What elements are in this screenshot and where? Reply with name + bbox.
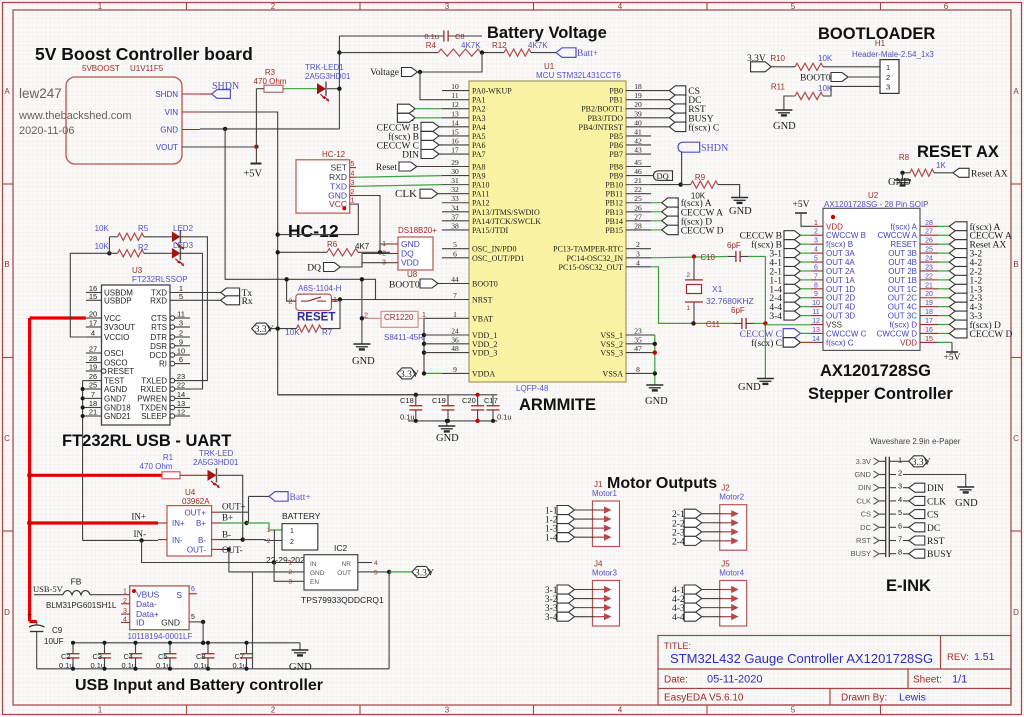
net flag f(scx) D (PB14) xyxy=(651,220,662,222)
junction CR1220 net xyxy=(360,277,364,281)
ground symbol (e-paper) xyxy=(957,486,974,488)
svg-text:USBDP: USBDP xyxy=(104,296,132,305)
net flag DC (PB1) xyxy=(651,99,669,101)
svg-text:27: 27 xyxy=(89,345,97,354)
svg-text:GND: GND xyxy=(854,470,871,479)
svg-text:2: 2 xyxy=(898,469,902,478)
svg-text:19: 19 xyxy=(925,300,933,307)
svg-text:GND: GND xyxy=(352,356,375,367)
J1 pin arrow 2 xyxy=(594,518,607,520)
svg-text:TRK-LED1: TRK-LED1 xyxy=(305,63,344,72)
svg-text:RXLED: RXLED xyxy=(140,385,167,394)
svg-text:C3: C3 xyxy=(93,652,103,661)
svg-text:24: 24 xyxy=(451,327,459,336)
wire RXD to Rx flag xyxy=(190,299,221,301)
svg-text:22: 22 xyxy=(925,273,933,280)
svg-text:RI: RI xyxy=(159,360,167,369)
ground symbol (MCU VSS) xyxy=(646,384,663,386)
svg-text:+5V: +5V xyxy=(944,353,961,363)
svg-text:OUT 2D: OUT 2D xyxy=(826,294,855,303)
svg-text:9: 9 xyxy=(814,291,818,298)
svg-text:TRK-LED: TRK-LED xyxy=(199,449,233,458)
ground symbol (crystal) xyxy=(757,378,774,380)
power flag +5V (U2 pin15) xyxy=(938,341,952,343)
wire LED2 to TXLED xyxy=(180,237,207,381)
svg-text:RESET: RESET xyxy=(890,240,917,249)
svg-text:VSS_1: VSS_1 xyxy=(600,331,623,340)
wire IN+ red xyxy=(30,521,158,524)
svg-text:21: 21 xyxy=(634,176,642,185)
svg-text:PA13/JTMS/SWDIO: PA13/JTMS/SWDIO xyxy=(472,208,540,217)
svg-text:19: 19 xyxy=(89,363,97,372)
svg-text:15: 15 xyxy=(925,336,933,343)
svg-text:VCC: VCC xyxy=(104,314,121,323)
svg-text:PB4/JNTRST: PB4/JNTRST xyxy=(579,123,624,132)
svg-text:OUT-: OUT- xyxy=(187,546,206,555)
net port DQ (PB9) xyxy=(651,175,653,177)
svg-text:DS18B20+: DS18B20+ xyxy=(398,226,437,235)
svg-text:4: 4 xyxy=(374,560,378,567)
wire VDD rows xyxy=(424,334,442,336)
junction R6 column xyxy=(276,250,280,254)
net flag RST (PB2) xyxy=(651,108,669,110)
svg-text:E-INK: E-INK xyxy=(886,577,931,595)
svg-text:C7: C7 xyxy=(235,652,245,661)
svg-text:PB1: PB1 xyxy=(609,96,623,105)
net flag SHDN (PB10 pullup net) xyxy=(678,142,700,152)
wire switch pin1 to NRST row xyxy=(331,299,442,301)
svg-text:03962A: 03962A xyxy=(182,497,210,506)
svg-text:1: 1 xyxy=(686,305,690,312)
svg-text:6: 6 xyxy=(453,249,457,258)
svg-text:GND: GND xyxy=(401,239,420,249)
svg-text:20: 20 xyxy=(89,310,97,319)
svg-text:OUT-: OUT- xyxy=(222,545,243,555)
svg-text:A6S-1104-H: A6S-1104-H xyxy=(298,284,342,293)
svg-text:C: C xyxy=(4,434,10,443)
svg-text:28: 28 xyxy=(925,220,933,227)
svg-text:10K: 10K xyxy=(95,242,110,251)
svg-text:26: 26 xyxy=(634,203,642,212)
net flag BUSY (PB3) xyxy=(651,117,669,119)
svg-text:28: 28 xyxy=(634,221,642,230)
wire DS18B20 GND stub xyxy=(380,244,390,252)
svg-text:PA12: PA12 xyxy=(472,199,490,208)
svg-text:R5: R5 xyxy=(138,224,149,233)
svg-text:10K: 10K xyxy=(818,54,833,63)
svg-text:PB13: PB13 xyxy=(605,208,623,217)
wire R11 to H1 pin3 xyxy=(823,86,880,96)
U2 right pins xyxy=(920,225,938,227)
HC-12 VCC pin dot xyxy=(342,206,346,210)
svg-text:OUT 4A: OUT 4A xyxy=(826,258,855,267)
svg-text:32.7680KHZ: 32.7680KHZ xyxy=(706,296,754,306)
svg-text:OUT 1A: OUT 1A xyxy=(826,276,855,285)
svg-text:2: 2 xyxy=(271,706,276,715)
svg-text:Lewis: Lewis xyxy=(899,692,926,704)
svg-text:VSS_3: VSS_3 xyxy=(600,349,623,358)
svg-text:10K: 10K xyxy=(95,224,110,233)
MCU U1 right pins xyxy=(626,90,651,92)
J1 pin arrow 1 xyxy=(594,509,607,511)
svg-text:IN: IN xyxy=(310,561,317,568)
svg-text:U8: U8 xyxy=(407,270,418,279)
svg-text:4: 4 xyxy=(814,247,818,254)
svg-text:TITLE:: TITLE: xyxy=(664,641,691,651)
wire IN- down to IC2 IN xyxy=(142,540,275,562)
wire OUT- down xyxy=(220,549,253,572)
svg-text:12: 12 xyxy=(812,318,820,325)
svg-text:OUT 2B: OUT 2B xyxy=(888,267,917,276)
svg-text:14: 14 xyxy=(451,118,459,127)
svg-text:AGND: AGND xyxy=(104,385,127,394)
svg-text:OSCI: OSCI xyxy=(104,349,124,358)
net flag Rx (FT232) xyxy=(221,296,240,305)
net flag RST (e-paper) xyxy=(903,540,909,542)
svg-text:FB: FB xyxy=(71,577,82,587)
J2 pin arrow 2 xyxy=(721,522,734,524)
svg-text:OUT 3A: OUT 3A xyxy=(826,249,855,258)
junction R6/DS18B20 xyxy=(378,250,382,254)
svg-text:DIN: DIN xyxy=(927,484,944,494)
svg-text:Reset AX: Reset AX xyxy=(971,169,1008,179)
svg-text:1: 1 xyxy=(333,297,337,304)
svg-text:OUT 2C: OUT 2C xyxy=(888,294,917,303)
net flag CLK (e-paper) xyxy=(903,500,909,502)
wire MCU VSS rows to ground (green) xyxy=(651,334,655,336)
svg-text:lew247: lew247 xyxy=(19,86,62,101)
svg-text:46: 46 xyxy=(634,167,642,176)
junction VSSA xyxy=(653,371,657,375)
svg-text:5: 5 xyxy=(814,256,818,263)
net flag 3.3V (e-paper) xyxy=(896,460,909,462)
wire R11 to GND xyxy=(784,96,795,110)
net flag CS (PB0) xyxy=(651,90,669,92)
svg-text:1-4: 1-4 xyxy=(545,534,558,544)
svg-text:VOUT: VOUT xyxy=(156,143,178,152)
J4 pin arrow 3 xyxy=(594,607,607,609)
svg-text:OUT 1C: OUT 1C xyxy=(888,285,917,294)
wire divider tap to Voltage flag xyxy=(420,53,482,72)
svg-text:45: 45 xyxy=(634,158,642,167)
svg-text:6: 6 xyxy=(944,2,949,11)
svg-text:CS: CS xyxy=(927,511,939,521)
power flag +5V (U2 pin1) xyxy=(801,213,811,226)
svg-text:OUT 3C: OUT 3C xyxy=(888,312,917,321)
svg-text:1: 1 xyxy=(98,2,103,11)
svg-text:2A5G3HD01: 2A5G3HD01 xyxy=(193,458,239,467)
svg-text:VBAT: VBAT xyxy=(472,314,493,323)
svg-text:4: 4 xyxy=(91,329,95,338)
svg-text:R2: R2 xyxy=(138,243,149,252)
svg-text:RST: RST xyxy=(856,536,871,545)
svg-text:VSSA: VSSA xyxy=(603,369,624,378)
svg-text:B+: B+ xyxy=(222,513,233,523)
svg-text:21: 21 xyxy=(925,282,933,289)
svg-text:R10: R10 xyxy=(770,54,785,63)
svg-text:Stepper Controller: Stepper Controller xyxy=(808,385,953,403)
svg-text:PB3/JTDO: PB3/JTDO xyxy=(587,114,623,123)
svg-text:4: 4 xyxy=(351,171,355,178)
svg-text:2: 2 xyxy=(351,189,355,196)
svg-text:B: B xyxy=(4,260,9,269)
svg-text:OUT 4D: OUT 4D xyxy=(826,303,855,312)
svg-text:17: 17 xyxy=(89,319,97,328)
svg-text:3: 3 xyxy=(636,249,640,258)
svg-text:26: 26 xyxy=(925,238,933,245)
svg-text:H1: H1 xyxy=(875,39,886,48)
svg-text:11: 11 xyxy=(177,310,185,319)
svg-text:3: 3 xyxy=(445,2,450,11)
J5 pin arrow 1 xyxy=(721,589,734,591)
junction PB10/SHDN/R9 xyxy=(679,182,683,186)
svg-text:GND: GND xyxy=(645,396,668,407)
svg-text:VCCIO: VCCIO xyxy=(104,333,129,342)
svg-text:25: 25 xyxy=(89,381,97,390)
svg-text:LED2: LED2 xyxy=(173,224,194,233)
svg-text:SHDN: SHDN xyxy=(155,90,178,99)
svg-text:42: 42 xyxy=(634,136,642,145)
svg-text:C18: C18 xyxy=(400,396,414,405)
svg-text:PB14: PB14 xyxy=(605,217,623,226)
svg-text:PA1: PA1 xyxy=(472,96,486,105)
svg-text:NR: NR xyxy=(342,561,352,568)
svg-text:PB0: PB0 xyxy=(609,87,623,96)
wire C10/C11 common column (green) xyxy=(764,257,766,379)
svg-text:PB6: PB6 xyxy=(609,141,623,150)
svg-text:5: 5 xyxy=(791,706,796,715)
net flag CECCW A (PB13) xyxy=(651,211,662,213)
svg-text:PC14-OSC32_IN: PC14-OSC32_IN xyxy=(567,254,624,263)
junction red bus IN+ xyxy=(27,520,32,525)
svg-text:2: 2 xyxy=(636,240,640,249)
net flag BUSY (e-paper) xyxy=(903,553,909,555)
svg-text:FT232RL USB - UART: FT232RL USB - UART xyxy=(62,432,231,450)
svg-text:ARMMITE: ARMMITE xyxy=(519,396,596,414)
svg-text:4: 4 xyxy=(636,258,640,267)
svg-text:R7: R7 xyxy=(322,328,333,337)
wire VCCIO feed from 3V3 xyxy=(70,253,109,337)
J5 pin arrow 2 xyxy=(721,598,734,600)
svg-text:6pF: 6pF xyxy=(727,241,741,250)
svg-text:Voltage: Voltage xyxy=(370,68,399,78)
svg-text:FT232RLSSOP: FT232RLSSOP xyxy=(132,275,188,284)
svg-text:CECCW D: CECCW D xyxy=(681,226,724,236)
svg-text:PB11: PB11 xyxy=(606,190,624,199)
svg-text:BATTERY: BATTERY xyxy=(282,511,321,521)
svg-text:10118194-0001LF: 10118194-0001LF xyxy=(128,632,193,641)
svg-text:CWCCW A: CWCCW A xyxy=(877,231,917,240)
capacitor C5 0.1u xyxy=(169,643,171,654)
svg-text:VSS_2: VSS_2 xyxy=(600,340,623,349)
svg-text:3.3V: 3.3V xyxy=(856,457,871,466)
svg-text:PB5: PB5 xyxy=(609,132,623,141)
svg-text:1K: 1K xyxy=(936,161,946,170)
wire VCC red feed xyxy=(30,316,86,319)
svg-text:19: 19 xyxy=(634,91,642,100)
svg-text:1: 1 xyxy=(98,706,103,715)
svg-text:470 Ohm: 470 Ohm xyxy=(140,462,173,471)
svg-text:10K: 10K xyxy=(285,328,300,337)
net flag f(scx) C (PB4) xyxy=(651,126,669,128)
svg-text:5: 5 xyxy=(374,570,378,577)
svg-text:16: 16 xyxy=(451,136,459,145)
junction VCC supply column xyxy=(276,232,280,236)
ground symbol (cap rail) xyxy=(299,643,301,650)
svg-text:C8: C8 xyxy=(196,652,206,661)
svg-text:TPS79933QDDCRQ1: TPS79933QDDCRQ1 xyxy=(301,595,384,605)
svg-text:Motor2: Motor2 xyxy=(719,493,744,502)
svg-text:GND: GND xyxy=(888,177,911,188)
wire B+ to battery pin1 (green) xyxy=(220,522,247,524)
wire IN- from FT232 grounds xyxy=(83,539,158,541)
title block xyxy=(658,636,1011,706)
svg-text:f(scx) B: f(scx) B xyxy=(826,240,853,249)
capacitor C8 0.1u xyxy=(207,643,209,654)
J2 pin arrow 4 xyxy=(721,540,734,542)
svg-text:3.3V: 3.3V xyxy=(415,568,434,578)
svg-text:3.3V: 3.3V xyxy=(912,458,931,468)
net flag CECCW D (PB15) xyxy=(651,229,662,231)
svg-text:2: 2 xyxy=(271,2,276,11)
svg-text:23: 23 xyxy=(925,264,933,271)
svg-text:05-11-2020: 05-11-2020 xyxy=(707,674,762,686)
svg-text:3-4: 3-4 xyxy=(545,613,558,623)
svg-text:3: 3 xyxy=(814,238,818,245)
wire LED3 to RXLED xyxy=(180,253,202,389)
svg-text:RESET: RESET xyxy=(108,367,135,376)
svg-text:5VBOOST: 5VBOOST xyxy=(82,64,120,73)
svg-text:7: 7 xyxy=(91,390,95,399)
svg-text:PA3: PA3 xyxy=(472,114,486,123)
wire C10 right to VSS column (green) xyxy=(748,256,765,258)
wire GND row to LED column xyxy=(200,128,339,130)
junction Voltage tap xyxy=(418,70,422,74)
svg-text:EN: EN xyxy=(310,579,319,586)
svg-text:30: 30 xyxy=(451,167,459,176)
wire battery plus to IC2 xyxy=(273,530,275,563)
wire HC-12 TXD to PA10 (green) xyxy=(356,185,442,187)
svg-text:Drawn By:: Drawn By: xyxy=(841,693,887,704)
svg-text:1.51: 1.51 xyxy=(974,651,995,663)
wire LED to OUT- column xyxy=(218,475,243,540)
svg-text:Sheet:: Sheet: xyxy=(913,675,942,686)
svg-text:DQ: DQ xyxy=(307,264,321,274)
svg-text:1: 1 xyxy=(123,589,127,596)
svg-text:PA14/JTCK/SWCLK: PA14/JTCK/SWCLK xyxy=(472,217,541,226)
wire PC14 to C10 (green) xyxy=(651,257,728,258)
svg-text:CR1220: CR1220 xyxy=(384,313,414,322)
wire R9 to GND xyxy=(718,185,740,198)
svg-text:18: 18 xyxy=(925,309,933,316)
U4 pin stubs xyxy=(158,522,167,524)
svg-text:IN+: IN+ xyxy=(172,519,185,528)
svg-text:17: 17 xyxy=(925,318,933,325)
svg-text:LED3: LED3 xyxy=(173,241,194,250)
wire PC15 down to C11 (green) xyxy=(651,267,734,324)
svg-text:14: 14 xyxy=(812,336,820,343)
svg-text:f(scx) C: f(scx) C xyxy=(688,122,719,133)
svg-text:A: A xyxy=(4,87,10,96)
svg-text:U2: U2 xyxy=(868,191,879,200)
svg-text:VDD_1: VDD_1 xyxy=(472,331,497,340)
svg-text:39: 39 xyxy=(634,109,642,118)
svg-text:R4: R4 xyxy=(426,41,437,50)
wire battery voltage node column xyxy=(338,36,340,129)
svg-text:1/1: 1/1 xyxy=(952,674,967,686)
svg-text:D: D xyxy=(4,608,10,617)
junction VSS net xyxy=(763,321,767,325)
svg-text:10: 10 xyxy=(451,82,459,91)
svg-text:6: 6 xyxy=(191,586,195,593)
svg-text:PA7: PA7 xyxy=(472,150,486,159)
svg-text:6: 6 xyxy=(898,521,902,530)
svg-text:PA10: PA10 xyxy=(472,181,490,190)
svg-text:EasyEDA V5.6.10: EasyEDA V5.6.10 xyxy=(664,693,744,704)
svg-text:DIN: DIN xyxy=(402,151,419,161)
wire switch pin2 to BOOT0 net xyxy=(287,279,296,301)
svg-text:R12: R12 xyxy=(492,41,507,50)
svg-text:www.thebackshed.com: www.thebackshed.com xyxy=(18,110,132,122)
capacitor C3 0.1u xyxy=(104,643,106,654)
svg-text:REV:: REV: xyxy=(947,652,969,663)
svg-text:6: 6 xyxy=(179,355,183,364)
junction crystal bottom xyxy=(691,321,695,325)
svg-text:f(scx) A: f(scx) A xyxy=(890,222,917,231)
junction red bus R1 xyxy=(27,473,32,478)
svg-text:1: 1 xyxy=(453,310,457,319)
svg-text:4K7: 4K7 xyxy=(355,242,370,251)
svg-text:AX1201728SG: AX1201728SG xyxy=(820,362,931,380)
svg-text:2-4: 2-4 xyxy=(672,537,685,547)
svg-text:USB-5V: USB-5V xyxy=(33,584,64,594)
svg-text:1: 1 xyxy=(351,198,355,205)
svg-text:R1: R1 xyxy=(163,453,174,462)
svg-text:3: 3 xyxy=(898,482,902,491)
svg-text:27: 27 xyxy=(634,212,642,221)
svg-text:DC: DC xyxy=(927,524,940,534)
svg-text:43: 43 xyxy=(634,146,642,155)
net flag Batt+ (charger) xyxy=(249,495,270,497)
svg-text:3-4: 3-4 xyxy=(769,312,782,322)
svg-text:PA8: PA8 xyxy=(472,163,486,172)
J2 pin arrow 3 xyxy=(721,531,734,533)
svg-text:f(scx) C: f(scx) C xyxy=(826,338,854,347)
svg-text:R6: R6 xyxy=(327,240,338,249)
wire vertical to BOOT0 net row xyxy=(225,129,375,300)
svg-text:15: 15 xyxy=(89,292,97,301)
capacitor rail bottom xyxy=(37,668,389,670)
svg-text:48: 48 xyxy=(451,344,459,353)
svg-text:10UF: 10UF xyxy=(44,637,64,646)
svg-text:SLEEP: SLEEP xyxy=(141,412,167,421)
wire IC2 OUT down to gnd rail xyxy=(388,572,390,669)
wire TXD to Tx flag xyxy=(190,292,221,294)
svg-text:DIN: DIN xyxy=(858,483,871,492)
wire VOUT to +5V xyxy=(182,146,256,148)
svg-text:7: 7 xyxy=(453,291,457,300)
svg-text:CWCCW D: CWCCW D xyxy=(877,329,918,338)
svg-text:GND: GND xyxy=(955,498,978,509)
svg-text:9: 9 xyxy=(179,337,183,346)
svg-text:Battery Voltage: Battery Voltage xyxy=(487,24,607,42)
svg-text:GND: GND xyxy=(161,618,180,628)
svg-text:16: 16 xyxy=(925,327,933,334)
svg-text:1: 1 xyxy=(267,527,271,534)
wire SHDN to PB10 xyxy=(681,152,683,184)
svg-text:LQFP-48: LQFP-48 xyxy=(516,384,549,393)
svg-text:IN+: IN+ xyxy=(131,512,146,522)
